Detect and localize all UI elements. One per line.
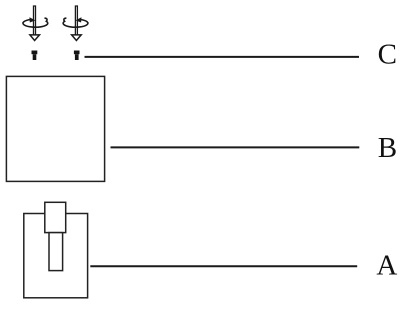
screw left: body bbox=[33, 54, 37, 60]
leader line A bbox=[90, 265, 357, 267]
rotation arrow icon right: shaft bbox=[75, 6, 77, 35]
screw right: head bbox=[74, 51, 80, 55]
svg-text:C: C bbox=[378, 39, 397, 71]
svg-text:B: B bbox=[378, 132, 397, 164]
box B bbox=[6, 76, 104, 181]
rotation arrow icon left: shaft bbox=[34, 6, 36, 35]
rotation arrow icon left: loop arrowhead bbox=[29, 17, 35, 22]
box A (outer body) bbox=[24, 214, 88, 298]
plunger stem bbox=[49, 233, 63, 271]
rotation arrow icon right: rotation loop (mirrored) bbox=[63, 17, 88, 27]
svg-text:A: A bbox=[376, 250, 397, 282]
screw right: body bbox=[75, 54, 79, 60]
rotation arrow icon right: hollow arrowhead bbox=[72, 35, 82, 41]
leader line C bbox=[85, 56, 360, 58]
rotation arrow icon left: hollow arrowhead bbox=[30, 35, 40, 41]
rotation arrow icon left: rotation loop bbox=[23, 18, 48, 27]
screw left: head bbox=[32, 51, 38, 55]
plunger head bbox=[45, 202, 66, 232]
leader line B bbox=[111, 146, 360, 148]
